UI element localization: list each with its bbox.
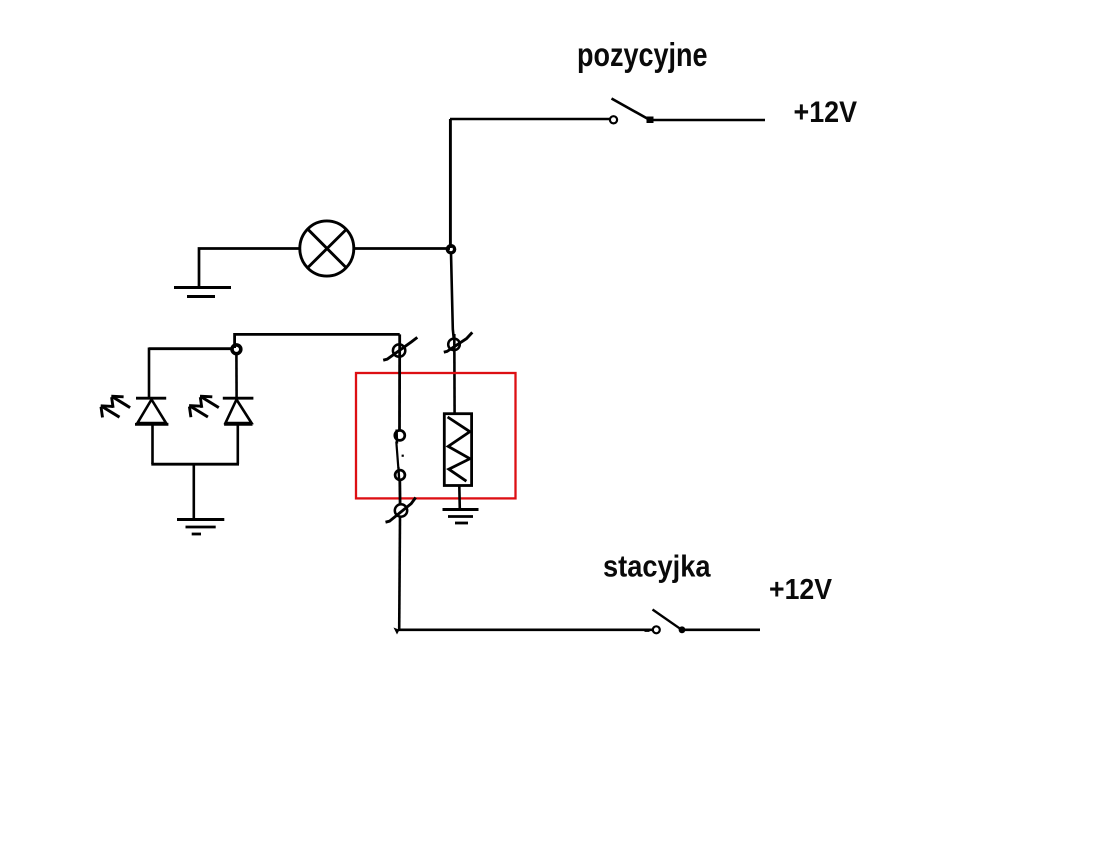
LED D1 arrow 1	[111, 396, 130, 408]
wire S4 down to bottom corner	[398, 517, 401, 630]
relay contact stray dot	[402, 455, 404, 457]
relay contact circle upper	[395, 430, 398, 444]
wire vertical S3 branch through red box	[398, 334, 401, 430]
switch S5 (stacyjka) contact circle	[653, 626, 660, 633]
relay coil K1 zigzag	[448, 417, 470, 481]
ground G1 (lamp) bar2	[187, 295, 215, 298]
LED D1 triangle	[138, 400, 167, 424]
lamp L1 cross	[308, 229, 346, 267]
relay coil K1 body	[444, 414, 471, 486]
ground G3 bar3	[192, 533, 201, 536]
wire LED top rail	[149, 347, 232, 350]
ground G1 (lamp) bar1	[174, 286, 231, 289]
ground G2 bar2	[448, 515, 473, 518]
wire from S1 to +12V	[652, 119, 765, 122]
ground G2 bar3	[455, 522, 468, 525]
wire coil to ground G2	[458, 486, 461, 509]
wire lamp right to node A	[354, 247, 450, 250]
switch S5 blade	[653, 610, 682, 630]
LED D1 anode bar	[135, 423, 168, 426]
wire lower contact to switch S4	[398, 480, 401, 505]
wire LED rail to ground G3	[193, 464, 196, 519]
relay contact slanted link	[396, 442, 398, 468]
LED D1 cathode bar	[136, 397, 166, 400]
switch S2 blade	[444, 332, 473, 352]
svg-text:+12V: +12V	[769, 574, 833, 606]
lamp L1 circle	[300, 221, 354, 276]
wire vertical from S1 down to node A	[449, 119, 452, 248]
switch S4 blade	[386, 498, 416, 523]
ground G3 bar1	[177, 518, 224, 521]
ground G3 bar2	[186, 526, 216, 529]
wire top rail from LEDs to switch S3 corner	[235, 334, 400, 348]
switch S2 circle	[448, 339, 460, 351]
switch S1 (pozycyjne) contact circle	[610, 116, 617, 123]
red relay box	[356, 373, 516, 498]
switch S5 fixed contact dot	[679, 626, 686, 633]
LED D2 triangle	[226, 400, 252, 424]
LED D1 arrow 2	[101, 406, 120, 418]
switch S4 circle	[395, 504, 407, 516]
wire S2 down to relay coil	[453, 334, 456, 414]
switch S1 fixed contact dot	[647, 117, 654, 124]
svg-text:+12V: +12V	[794, 96, 858, 129]
LED D2 anode bar	[224, 423, 252, 426]
wire from S5 to +12V bottom	[684, 628, 760, 631]
ground G2 bar1	[443, 508, 479, 511]
LED D2 cathode bar	[223, 397, 254, 400]
wire top left horizontal to switch S1	[450, 118, 610, 121]
wire left LED bottom vertical	[151, 425, 154, 465]
node B junction circle (LED rail)	[232, 345, 241, 354]
switch S3 circle	[393, 344, 405, 356]
wire right LED top vertical from node B	[235, 352, 238, 398]
wire bottom horizontal to switch S5	[399, 628, 653, 631]
switch S1 blade	[612, 99, 650, 120]
LED D2 arrow 2	[189, 406, 208, 418]
svg-text:pozycyjne: pozycyjne	[577, 36, 708, 73]
node A junction circle	[447, 246, 454, 253]
LED D2 arrow 1	[200, 396, 219, 408]
wire lamp left to ground	[199, 249, 300, 288]
wire stub left of S5	[645, 630, 650, 632]
wire left LED top vertical	[148, 348, 151, 399]
switch S3 blade	[383, 337, 417, 360]
wire right LED bottom vertical	[237, 425, 240, 465]
wire LED bottom rail	[151, 463, 239, 466]
svg-text:stacyjka: stacyjka	[603, 549, 711, 584]
bottom corner arrowhead	[394, 628, 400, 635]
wire node A down to switch S2	[451, 253, 454, 339]
relay contact circle lower	[397, 467, 400, 481]
